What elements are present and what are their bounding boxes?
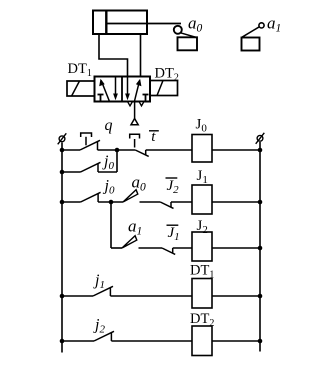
svg-text:q: q bbox=[105, 117, 113, 134]
svg-text:j0: j0 bbox=[102, 153, 114, 172]
svg-text:DT1: DT1 bbox=[68, 61, 92, 79]
svg-text:a1: a1 bbox=[267, 14, 281, 35]
svg-text:J1: J1 bbox=[168, 225, 180, 243]
svg-text:j0: j0 bbox=[103, 178, 115, 197]
svg-text:DT2: DT2 bbox=[190, 311, 214, 329]
svg-text:j2: j2 bbox=[93, 317, 105, 336]
svg-text:J2: J2 bbox=[167, 178, 180, 196]
svg-text:j1: j1 bbox=[93, 272, 105, 291]
svg-text:DT2: DT2 bbox=[155, 66, 179, 84]
svg-text:J2: J2 bbox=[197, 218, 208, 236]
svg-text:J1: J1 bbox=[197, 168, 208, 186]
svg-text:J0: J0 bbox=[196, 117, 208, 135]
svg-text:a0: a0 bbox=[132, 173, 147, 194]
svg-text:a0: a0 bbox=[188, 14, 203, 35]
svg-text:DT1: DT1 bbox=[190, 263, 214, 281]
svg-text:a1: a1 bbox=[128, 217, 142, 238]
